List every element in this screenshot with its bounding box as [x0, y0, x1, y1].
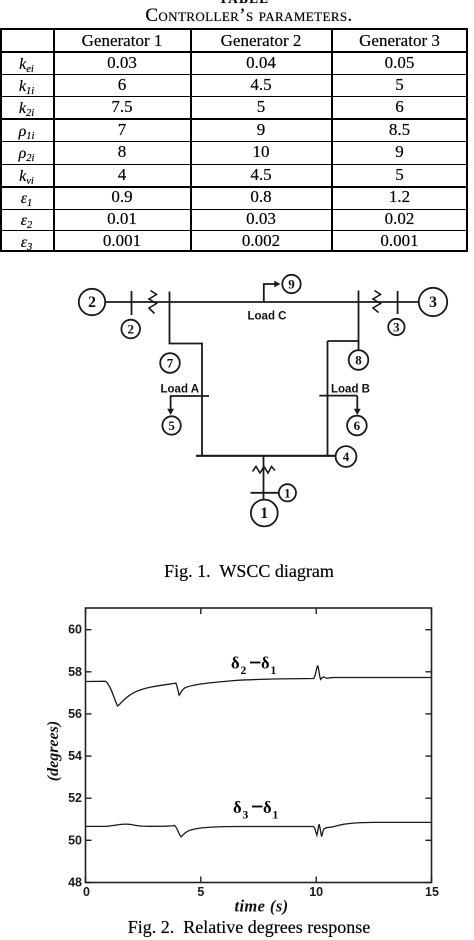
wire jog B: [328, 340, 360, 342]
curve delta3-delta1: [86, 822, 432, 837]
wire node8 drop: [358, 291, 360, 351]
node circle 7: [160, 353, 180, 373]
wire to node 1: [276, 492, 279, 494]
transformer zigzag left: [149, 291, 157, 314]
Load C arrow: [274, 281, 280, 288]
wire bottom bus: [196, 455, 336, 457]
svg-text:60: 60: [68, 623, 82, 637]
node circle 5: [162, 416, 180, 434]
svg-text:Load B: Load B: [331, 384, 370, 396]
svg-text:(degrees): (degrees): [45, 721, 62, 781]
svg-text:52: 52: [68, 791, 82, 805]
svg-text:1: 1: [273, 810, 279, 822]
svg-text:3: 3: [393, 320, 400, 335]
values col3: [333, 54, 466, 72]
bus bar 2: [131, 291, 133, 315]
node circle 3: [388, 319, 404, 335]
values col1: [55, 54, 189, 72]
transformer zigzag bottom: [253, 467, 276, 474]
Fig 2 caption: [12, 917, 474, 938]
svg-text:3: 3: [243, 810, 249, 822]
vertical lines: [0, 28, 2, 252]
curve delta2-delta1: [86, 666, 432, 706]
label delta2-delta1: [250, 662, 261, 664]
generator G2: [79, 289, 105, 315]
svg-text:δ: δ: [263, 798, 272, 817]
Load A arrow: [170, 396, 172, 411]
svg-text:56: 56: [68, 707, 82, 721]
generator G1: [251, 500, 278, 527]
axis ticks: [86, 608, 432, 883]
horizontal lines: [0, 28, 468, 30]
svg-text:Load A: Load A: [161, 384, 200, 396]
svg-text:8: 8: [355, 353, 362, 368]
svg-text:2: 2: [88, 294, 96, 311]
svg-text:10: 10: [309, 885, 323, 899]
svg-text:4: 4: [343, 449, 350, 464]
node circle 2: [121, 320, 140, 339]
values col2: [191, 54, 331, 72]
bus bar 1: [251, 492, 277, 494]
svg-text:2: 2: [127, 322, 134, 337]
svg-text:δ: δ: [231, 654, 240, 673]
svg-text:3: 3: [429, 294, 437, 311]
svg-text:0: 0: [83, 885, 90, 899]
node circle 9: [282, 275, 300, 293]
svg-text:1: 1: [271, 665, 277, 677]
svg-text:δ: δ: [233, 798, 242, 817]
bus bar 3: [397, 291, 399, 314]
FIG 1 DIAGRAM SVG: [0, 260, 474, 560]
svg-text:9: 9: [288, 277, 295, 292]
Load B arrow: [356, 396, 358, 411]
y tick labels: [68, 623, 82, 890]
header row: [55, 32, 189, 50]
row labels: [0, 57, 53, 74]
svg-text:54: 54: [68, 749, 82, 763]
generator G3: [419, 288, 447, 316]
plot box: [86, 608, 432, 883]
Load C riser: [264, 284, 277, 302]
wire gen1 riser: [263, 456, 265, 500]
svg-text:48: 48: [68, 876, 82, 890]
node circle 8: [349, 350, 369, 370]
wire right feeder: [327, 341, 329, 456]
svg-text:15: 15: [425, 885, 439, 899]
wire top bus: [106, 301, 419, 303]
svg-text:1: 1: [284, 485, 291, 500]
transformer zigzag right: [373, 291, 381, 313]
wire left feeder: [201, 343, 203, 456]
table caption: [12, 5, 474, 27]
cut-off TABLE I title sliver: [219, 0, 279, 5]
svg-text:50: 50: [68, 833, 82, 847]
node circle 6: [347, 416, 367, 436]
Load B tap: [319, 395, 357, 397]
Fig 1 caption: [12, 561, 474, 582]
svg-text:1: 1: [260, 505, 268, 522]
x tick labels: [83, 885, 439, 899]
svg-text:6: 6: [354, 418, 361, 433]
node circle 1: [279, 484, 296, 501]
svg-text:58: 58: [68, 665, 82, 679]
svg-text:7: 7: [167, 356, 174, 371]
svg-text:δ: δ: [261, 654, 270, 673]
svg-text:Load C: Load C: [248, 311, 287, 323]
svg-text:2: 2: [241, 665, 247, 677]
svg-text:5: 5: [197, 885, 204, 899]
wire node7 drop: [169, 292, 171, 345]
label delta3-delta1: [252, 806, 263, 808]
FIG 2 CHART SVG: [0, 596, 474, 916]
Load A tap: [170, 395, 209, 397]
node circle 4: [336, 446, 357, 467]
svg-text:time (s): time (s): [234, 897, 288, 916]
wire jog A: [169, 343, 202, 345]
svg-text:5: 5: [168, 418, 175, 433]
